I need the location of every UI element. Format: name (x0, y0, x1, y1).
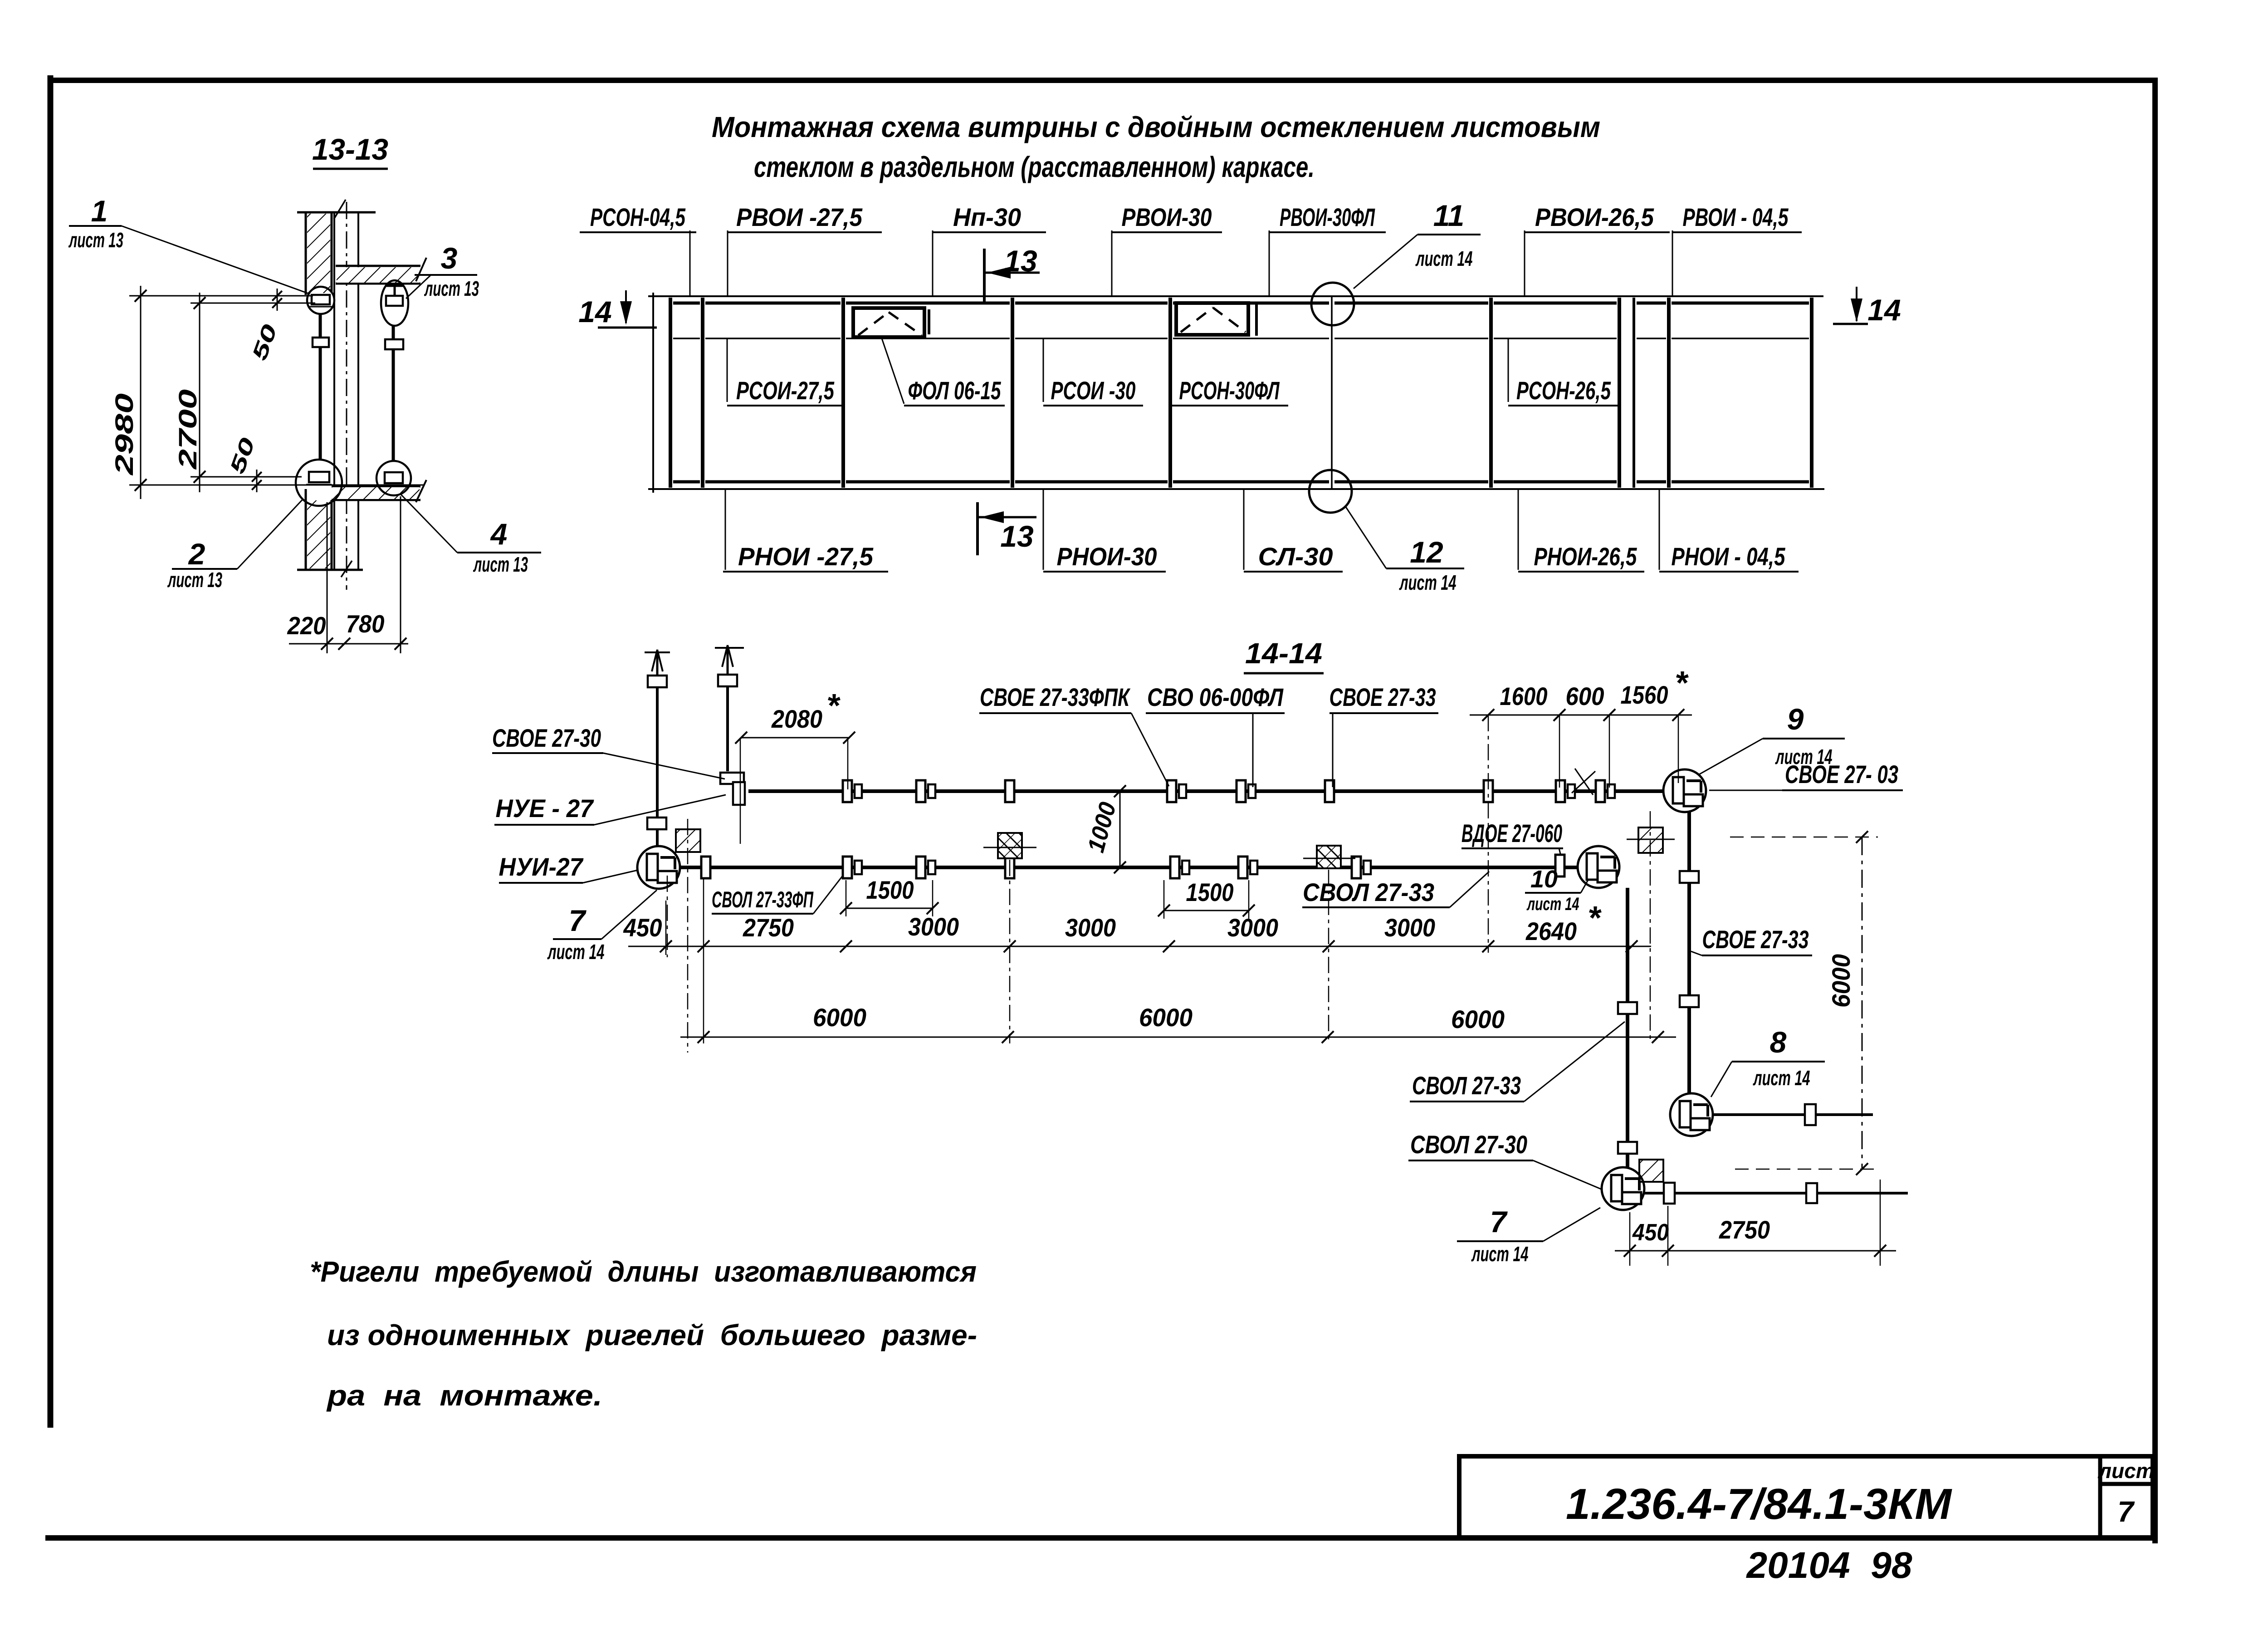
plan title underline (1244, 672, 1324, 675)
svg-text:лист 14: лист 14 (1526, 894, 1579, 914)
anchor tie A (645, 650, 670, 686)
circle 9 corner fitting (1673, 777, 1703, 806)
section mark 13 top (984, 249, 1040, 303)
column centerline dash-dot (346, 202, 347, 590)
svg-text:РСОИ -30: РСОИ -30 (1051, 376, 1136, 405)
svg-text:2700: 2700 (173, 389, 202, 470)
bottom side rail fastener 2 (1806, 1183, 1817, 1203)
svg-text:РНОИ - 04,5: РНОИ - 04,5 (1672, 542, 1786, 571)
dim 220-780 ticks (321, 638, 406, 650)
label РНОИ-30 underline (1043, 571, 1166, 573)
anchor tie B plate (718, 675, 737, 686)
border frame right (2152, 78, 2158, 1543)
anchor tie B (715, 645, 744, 681)
dim 1600-600-1560 line (1470, 715, 1692, 716)
svg-text:600: 600 (1566, 682, 1604, 710)
dim row B line (628, 946, 1651, 947)
break cross on upper rail (1572, 769, 1595, 795)
svg-text:РВОИ -27,5: РВОИ -27,5 (736, 203, 863, 231)
right glass pane upper (392, 326, 395, 339)
building column 1 (676, 829, 700, 852)
svg-text:лист 14: лист 14 (1399, 571, 1456, 594)
upper rail fastener 6 (1325, 780, 1334, 802)
top extension line outer (129, 295, 313, 297)
label РСОИ-30 leader (1043, 338, 1044, 402)
svg-text:РВОИ-30: РВОИ-30 (1122, 203, 1212, 231)
upper rail fastener pair 4 (1167, 780, 1186, 802)
inner return plate 1 (1618, 1002, 1637, 1014)
title block outer box (1459, 1456, 2153, 1537)
grid extension column 3 (1328, 870, 1330, 1043)
upper rail fastener 7 (1484, 780, 1493, 802)
node 4 fastener plate (385, 472, 403, 483)
svg-text:14: 14 (1867, 293, 1901, 327)
upper rail fastener pair 2 (916, 780, 935, 802)
svg-text:*: * (1588, 900, 1602, 936)
label ВДОЕ 27-060 underline (1461, 847, 1563, 849)
mullion 6 (1618, 298, 1621, 488)
svg-text:6000: 6000 (1451, 1005, 1505, 1033)
label СВОЕ 27-03 leader (1709, 790, 1782, 791)
grid extension column 1 (687, 819, 689, 1053)
svg-text:2: 2 (188, 537, 205, 571)
elevation left outer edge (652, 293, 654, 493)
svg-text:СВОЛ 27-33ФП: СВОЛ 27-33ФП (712, 887, 814, 912)
vent window 2 frame (1176, 303, 1248, 335)
vent window 1 opening dashes (858, 312, 922, 335)
svg-text:3000: 3000 (1065, 913, 1116, 942)
svg-text:СВО 06-00ФЛ: СВО 06-00ФЛ (1147, 683, 1284, 711)
svg-text:1500: 1500 (866, 876, 914, 904)
svg-text:лист 14: лист 14 (1753, 1066, 1810, 1090)
svg-text:1.236.4-7/84.1-3КМ: 1.236.4-7/84.1-3КМ (1566, 1480, 1952, 1528)
anchor tie A lower plate (647, 818, 666, 829)
grid extension 3281 (1488, 715, 1489, 953)
label РСОН-30ФЛ leader (1170, 338, 1171, 402)
label РВОИ-30 underline (1112, 231, 1222, 233)
dim 1500 right ext 1 (1163, 880, 1165, 919)
svg-text:3000: 3000 (1384, 913, 1435, 942)
callout 4 underline (457, 552, 541, 553)
label СВО 06-00ФЛ leader (1252, 713, 1254, 787)
elevation transom line segments (673, 338, 1809, 339)
right glazing clamp plate (385, 339, 403, 349)
detail circle 10 (1578, 846, 1619, 888)
lower slab hatch (332, 487, 420, 499)
svg-text:лист 14: лист 14 (1775, 745, 1832, 769)
mullion 2 (841, 298, 845, 488)
lower rail fastener pair 6 (1238, 857, 1257, 878)
callout 7 underline (553, 938, 601, 940)
svg-text:РВОИ - 04,5: РВОИ - 04,5 (1683, 203, 1789, 231)
label СВОЛ 27-33 mid underline and leader (1302, 871, 1489, 907)
node 3 fastener plate (386, 296, 403, 306)
label СЛ-30 underline (1244, 571, 1343, 573)
svg-text:лист 14: лист 14 (547, 940, 604, 964)
label СВОЕ 27-33 right underline (1702, 955, 1812, 956)
svg-text:из одноименных ригелей больш: из одноименных ригелей большего разме- (327, 1319, 977, 1351)
svg-text:1: 1 (91, 194, 108, 228)
dim 220-780 line (289, 643, 408, 645)
dim 2980 line (140, 286, 142, 499)
detail circle 11 (1311, 283, 1354, 325)
svg-text:12: 12 (1410, 535, 1443, 569)
vent window 2 stub (1255, 304, 1258, 336)
svg-text:СВОЕ 27-33ФПК: СВОЕ 27-33ФПК (980, 683, 1131, 711)
outer return rail (1687, 812, 1691, 1093)
svg-text:ра на монтаже.: ра на монтаже. (326, 1379, 602, 1412)
label СВОЛ 27-30 leader (1533, 1160, 1602, 1190)
callout 12 leader (1345, 506, 1386, 568)
border frame bottom (45, 1535, 2158, 1541)
svg-text:4: 4 (490, 517, 508, 551)
title block divider horizontal (2100, 1482, 2153, 1486)
label СВОЕ 27-33 right leader (1691, 951, 1702, 955)
building column 3 (1317, 846, 1341, 868)
circle 8 side rail fastener (1805, 1104, 1816, 1125)
callout 7 bottom underline (1457, 1240, 1543, 1242)
border frame left (48, 75, 54, 1428)
dim 2080 ext left (740, 738, 741, 844)
svg-text:РНОИ-26,5: РНОИ-26,5 (1534, 542, 1637, 571)
mullion left end (669, 298, 672, 488)
column right line (357, 212, 359, 570)
label СВОЕ 27-33ФПК leader (1131, 713, 1169, 786)
inner return plate 2 (1618, 1142, 1637, 1154)
vent window 1 frame (853, 308, 924, 337)
top ledge break mark (334, 200, 346, 219)
svg-text:450: 450 (623, 913, 662, 942)
vent window 2 opening dashes (1181, 308, 1246, 332)
svg-text:РВОИ-30ФЛ: РВОИ-30ФЛ (1280, 203, 1375, 231)
dim 50 bottom line (256, 470, 258, 492)
elevation outer top chord (648, 295, 1823, 297)
label РВОИ-26,5 underline (1525, 231, 1670, 233)
extension 450 left (665, 901, 667, 955)
lower rail fastener pair 5 (1170, 857, 1189, 878)
dim 2750 ext 3 (1880, 1180, 1881, 1266)
label РВОИ-30ФЛ underline (1269, 231, 1386, 233)
label СВОЛ 27-33ФП underline and leader (712, 876, 843, 914)
bottom extension line outer (129, 485, 424, 486)
node 2 fastener plate (309, 472, 329, 482)
callout 11 underline (1417, 234, 1481, 235)
node 4 fastener circle (376, 461, 411, 495)
detail circle 7 bottom (1602, 1167, 1644, 1210)
mullion 3 (1011, 298, 1014, 488)
callout 12 underline (1386, 568, 1464, 569)
svg-text:1560: 1560 (1621, 681, 1668, 709)
callout 1 underline (69, 225, 122, 227)
outer return plate 1 (1680, 871, 1699, 883)
label СВОЕ 27-30 underline (492, 752, 603, 754)
dim 780 extension (400, 496, 401, 653)
svg-text:6000: 6000 (813, 1003, 866, 1032)
svg-text:СВОЕ 27-30: СВОЕ 27-30 (492, 724, 601, 752)
detail circle 7 (637, 846, 680, 889)
svg-text:1600: 1600 (1500, 682, 1548, 710)
callout 7 bottom leader (1543, 1208, 1600, 1241)
dim 2080 line (741, 737, 849, 739)
vent window 1 stub (928, 309, 930, 334)
dim 1500 left ticks (840, 902, 938, 914)
label РСОН-30ФЛ underline (1170, 405, 1288, 406)
section mark 14 left arrow (598, 290, 657, 328)
dim 1600-600-1560 ticks (1482, 709, 1684, 721)
upper rail fastener pair 8 (1556, 780, 1575, 802)
svg-text:стеклом в раздельном (расст: стеклом в раздельном (расставленном) кар… (754, 151, 1315, 183)
lower rail (679, 866, 1578, 869)
lower rail fastener 4 (1005, 857, 1014, 878)
bottom ledge break mark (341, 561, 352, 577)
section mark 14 right arrow (1833, 287, 1868, 324)
svg-text:3: 3 (441, 241, 458, 275)
outer return plate 2 (1680, 995, 1699, 1007)
grid extension column 2 (1009, 860, 1011, 1043)
dim 1500 left ext 2 (932, 880, 934, 916)
dim 2980 ticks (135, 290, 147, 491)
svg-text:НУЕ - 27: НУЕ - 27 (496, 794, 595, 822)
svg-text:220: 220 (287, 612, 326, 640)
lower rail fastener pair 2 (843, 857, 862, 878)
bottom extension line inner (191, 476, 302, 478)
dim 2700 ticks (194, 297, 205, 483)
label СВОЕ 27-33ФПК underline (979, 712, 1131, 714)
svg-text:СЛ-30: СЛ-30 (1258, 542, 1333, 571)
label СВОЕ 27-03 underline (1782, 789, 1903, 791)
bottom label leaders (725, 489, 1659, 570)
border frame top (48, 78, 2158, 83)
label РСОН-26,5 leader (1508, 338, 1509, 402)
dim 1500 right line (1164, 910, 1249, 911)
dim 50 top ticks (272, 291, 282, 308)
svg-text:РНОИ -27,5: РНОИ -27,5 (738, 542, 874, 571)
svg-text:*Ригели требуемой длины изг: *Ригели требуемой длины изготавливаются (310, 1255, 977, 1288)
svg-text:лист 13: лист 13 (167, 568, 223, 592)
node 1 fastener plate (312, 295, 330, 304)
upper slab right end tick (416, 258, 426, 281)
label СВОЕ 27-30 leader (603, 753, 725, 779)
svg-text:3000: 3000 (1227, 913, 1278, 942)
lower rail fastener ВДОЕ (1555, 855, 1564, 876)
grid extension column 3b (1650, 811, 1651, 1043)
callout 9 underline (1763, 738, 1845, 739)
wall right edge lower (331, 500, 333, 570)
callout 2 underline (172, 568, 237, 570)
svg-text:11: 11 (1433, 199, 1465, 232)
svg-text:лист 14: лист 14 (1415, 247, 1472, 270)
upper rail fastener pair 9 (1596, 780, 1615, 802)
node 3 anchor top bar (386, 285, 403, 287)
upper rail (748, 789, 1663, 793)
label СВОЛ 27-30 underline (1408, 1160, 1533, 1161)
mullion 4 (1168, 298, 1172, 488)
extension 1551 (703, 878, 704, 1043)
callout 1 leader (122, 226, 310, 294)
label ФОЛ 06-15 leader (882, 338, 904, 404)
dim 1000 ticks (1114, 785, 1126, 873)
svg-text:13-13: 13-13 (312, 132, 388, 166)
wall left edge upper (305, 212, 307, 295)
svg-text:2750: 2750 (1719, 1215, 1770, 1244)
label СВОЛ 27-33 bottom underline (1410, 1101, 1524, 1102)
lower rail fastener 1 (701, 857, 710, 878)
svg-text:3000: 3000 (908, 912, 959, 941)
svg-text:2980: 2980 (110, 393, 138, 475)
label РНОИ-04,5 underline (1659, 571, 1799, 573)
label РСОИ-30 underline (1043, 405, 1143, 406)
svg-text:6000: 6000 (1139, 1003, 1193, 1032)
top extension line inner (191, 303, 315, 304)
label ВДОЕ 27-060 leader (1559, 848, 1560, 854)
dim 50 bottom ticks (252, 472, 262, 490)
svg-text:ВДОЕ 27-060: ВДОЕ 27-060 (1461, 819, 1562, 847)
svg-text:7: 7 (1490, 1205, 1508, 1239)
svg-text:РСОИ-27,5: РСОИ-27,5 (736, 376, 835, 405)
dim 1600 ext 2 (1609, 715, 1610, 788)
upper rail fastener pair 1 (843, 780, 862, 802)
lower rail fastener pair 7 (1352, 857, 1371, 878)
dim 1500 left line (846, 908, 933, 909)
mullion 5 (1489, 298, 1493, 488)
upper slab bottom line (336, 283, 420, 285)
upper slab hatch (337, 267, 420, 283)
svg-text:СВОЕ 27-33: СВОЕ 27-33 (1702, 925, 1809, 954)
svg-text:лист: лист (2097, 1459, 2154, 1483)
svg-text:СВОЕ 27-33: СВОЕ 27-33 (1330, 683, 1436, 711)
label РСОИ-27,5 leader (727, 338, 728, 402)
dim vertical 6000 ext top (1730, 837, 1878, 838)
node 3 anchor stem (394, 286, 396, 296)
left glass pane lower (319, 347, 322, 460)
callout 9 leader (1698, 739, 1763, 775)
building column 4 (1639, 1160, 1663, 1182)
dim 1500 left ext 1 (846, 880, 847, 916)
wall left edge lower (305, 489, 307, 570)
label РСОН-04,5 underline (580, 231, 696, 233)
svg-text:лист 13: лист 13 (473, 553, 528, 576)
callout 3 underline (415, 274, 477, 276)
svg-text:8: 8 (1770, 1025, 1787, 1059)
wall top ledge (297, 211, 376, 214)
inner return rail (1626, 888, 1629, 1167)
callout 11 leader (1354, 235, 1417, 289)
svg-text:1500: 1500 (1186, 878, 1234, 906)
svg-text:РНОИ-30: РНОИ-30 (1057, 542, 1157, 571)
column left line (333, 212, 335, 570)
mullion 7 (1667, 298, 1671, 488)
node 1 fastener base line (308, 306, 332, 308)
callout 10 underline (1525, 892, 1581, 894)
lower slab bottom line (332, 499, 420, 501)
label РСОИ-27,5 underline (727, 405, 843, 406)
svg-text:2640: 2640 (1525, 917, 1577, 945)
dim 450-2750 ticks (1624, 1245, 1886, 1257)
building column 3b (1638, 827, 1663, 853)
corner fitting at rail start (720, 773, 745, 805)
callout 2 leader (237, 499, 303, 569)
svg-text:ФОЛ 06-15: ФОЛ 06-15 (908, 376, 1002, 405)
circle 8 corner fitting (1680, 1101, 1710, 1130)
anchor tie A shaft lower (656, 830, 659, 846)
dim 2700 line (199, 293, 200, 492)
dim 450 ext 1 (1629, 1212, 1631, 1266)
upper rail fastener pair 5 (1237, 780, 1256, 802)
svg-text:6000: 6000 (1827, 954, 1855, 1008)
svg-text:РВОИ-26,5: РВОИ-26,5 (1535, 203, 1654, 231)
svg-text:РСОН-30ФЛ: РСОН-30ФЛ (1179, 376, 1280, 405)
mullion 1 (701, 298, 704, 488)
elevation inner bottom chord segments (673, 480, 1809, 484)
upper rail fastener 3 (1005, 780, 1014, 802)
label Нп-30 underline (933, 231, 1046, 233)
label РСОН-26,5 underline (1508, 405, 1619, 406)
top label leaders (690, 230, 1672, 296)
building column 2 (998, 833, 1022, 858)
column 3 axis tick (1303, 858, 1355, 859)
detail circle 12 (1309, 470, 1352, 513)
anchor tie B shaft (726, 686, 729, 771)
dim 1600 ext 1 (1559, 715, 1560, 788)
svg-text:7: 7 (2117, 1495, 2135, 1528)
upper slab top line (336, 265, 420, 267)
label СВО 06-00ФЛ underline (1146, 712, 1285, 714)
mullion 6b (1633, 298, 1635, 488)
svg-text:*: * (826, 688, 841, 724)
svg-text:9: 9 (1787, 702, 1804, 736)
svg-text:НУИ-27: НУИ-27 (499, 852, 584, 881)
dim 1000 line (1119, 791, 1121, 867)
label СВОЛ 27-33 bottom leader (1524, 1022, 1625, 1102)
dim row C line (680, 1037, 1676, 1038)
callout 4 leader (400, 494, 457, 553)
svg-text:РСОН-04,5: РСОН-04,5 (590, 203, 686, 231)
circle 7 bottom side rail (1644, 1192, 1908, 1195)
svg-text:лист 13: лист 13 (424, 277, 479, 300)
svg-text:7: 7 (569, 904, 587, 937)
node 2 fastener circle (296, 460, 342, 506)
anchor tie A plate (648, 676, 667, 687)
column 2 axis tick (983, 847, 1036, 848)
wall hatch upper block (307, 214, 330, 293)
dim row B ticks (660, 940, 1637, 952)
dim vertical 6000 ticks (1856, 831, 1868, 1175)
svg-text:Нп-30: Нп-30 (953, 203, 1021, 231)
title block divider vertical (2098, 1456, 2102, 1537)
bottom side rail fastener 1 (1664, 1183, 1675, 1204)
circle 10 corner fitting (1587, 853, 1617, 882)
section mark 13 bottom (978, 502, 1036, 555)
label РНОИ-26,5 underline (1518, 571, 1644, 573)
callout 8 underline (1732, 1061, 1825, 1062)
label НУИ-27 underline (499, 882, 583, 884)
dim 1500 right ticks (1158, 905, 1255, 916)
label СВОЕ 27-33 top underline (1330, 712, 1438, 714)
svg-text:13: 13 (1000, 519, 1033, 553)
node 1 fastener circle (307, 287, 334, 314)
wall bottom ledge (297, 569, 363, 571)
lower slab right end tick (416, 480, 426, 502)
svg-text:*: * (1675, 665, 1689, 701)
node 2 fastener base line (306, 484, 332, 485)
label РВОИ-04,5 underline (1672, 231, 1802, 233)
svg-text:20104 98: 20104 98 (1745, 1545, 1912, 1586)
svg-text:СВОЛ 27-33: СВОЛ 27-33 (1412, 1071, 1521, 1100)
lower rail fastener pair 3 (916, 857, 935, 878)
detail circle 9 (1663, 769, 1706, 812)
svg-text:лист 13: лист 13 (68, 228, 124, 252)
label НУИ-27 leader (583, 870, 638, 883)
